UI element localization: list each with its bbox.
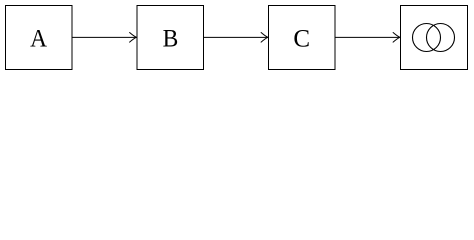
block A box (6, 6, 73, 70)
wire A to B (72, 36, 135, 38)
svg-text:A: A (30, 25, 47, 52)
arrowhead A to B (130, 33, 137, 43)
block B box (137, 6, 204, 70)
arrowhead C to D (393, 33, 400, 43)
wire C to D (335, 36, 399, 38)
svg-text:C: C (293, 25, 310, 52)
arrowhead B to C (261, 33, 268, 43)
block C box (269, 6, 336, 70)
venn left circle (413, 24, 441, 52)
svg-text:B: B (163, 25, 179, 52)
block D box (venn output) (401, 6, 468, 70)
wire B to C (204, 36, 267, 38)
venn right circle (427, 24, 455, 52)
